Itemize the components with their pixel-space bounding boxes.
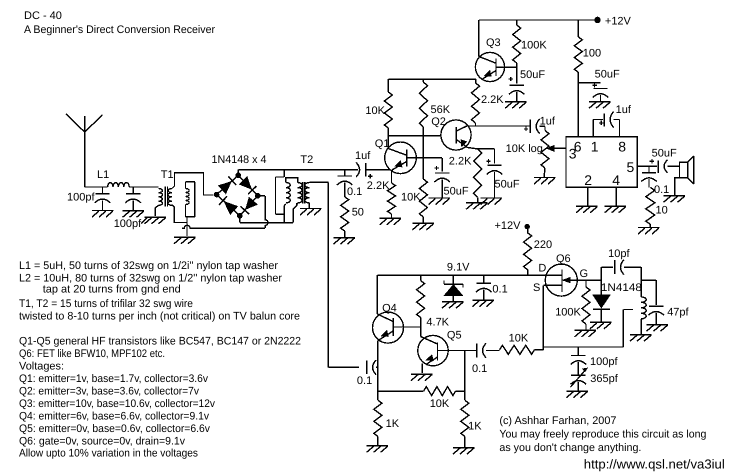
svg-text:10K: 10K [365,105,385,117]
svg-text:50uF: 50uF [495,179,520,191]
svg-text:100: 100 [583,48,601,60]
svg-text:Q2: emitter=3v, base=3.6v, col: Q2: emitter=3v, base=3.6v, collector=7v [19,386,199,398]
svg-text:S: S [533,282,540,294]
svg-text:365pf: 365pf [590,373,618,385]
svg-text:as you don't change anything.: as you don't change anything. [499,442,641,454]
svg-text:50uF: 50uF [652,148,677,160]
svg-text:1N4148 x 4: 1N4148 x 4 [212,154,267,166]
svg-text:5: 5 [627,159,635,175]
svg-text:3: 3 [569,146,577,162]
svg-text:Q3: emitter=10v, base=10.6v, c: Q3: emitter=10v, base=10.6v, collector=1… [19,398,215,410]
svg-text:1: 1 [591,138,599,154]
svg-text:100K: 100K [521,40,547,52]
svg-text:2: 2 [584,172,592,188]
svg-text:0.1: 0.1 [347,186,362,198]
svg-text:Q6: FET like BFW10, MPF102 etc: Q6: FET like BFW10, MPF102 etc. [19,348,165,360]
svg-text:100pf: 100pf [67,192,95,204]
svg-text:DC - 40: DC - 40 [24,10,62,22]
svg-text:T2: T2 [300,154,313,166]
svg-text:1K: 1K [468,421,482,433]
svg-text:2.2K: 2.2K [367,180,390,192]
svg-text:Q3: Q3 [486,37,501,49]
svg-text:50: 50 [352,207,364,219]
svg-text:Q6: gate=0v, source=0v, drain=: Q6: gate=0v, source=0v, drain=9.1v [19,436,185,448]
svg-text:50uF: 50uF [595,69,620,81]
svg-text:L1: L1 [97,169,109,181]
svg-text:1uf: 1uf [355,150,371,162]
svg-text:T1, T2 = 15 turns of trifilar: T1, T2 = 15 turns of trifilar 32 swg wir… [19,298,193,310]
svg-text:4.7K: 4.7K [426,317,449,329]
svg-text:100pf: 100pf [590,356,618,368]
svg-text:10K: 10K [509,333,529,345]
svg-text:+12V: +12V [495,220,522,232]
svg-text:Q5: emitter=0v, base=0.6v, col: Q5: emitter=0v, base=0.6v, collector=6.6… [19,423,210,435]
svg-text:10K: 10K [430,398,450,410]
svg-text:2.2K: 2.2K [481,94,504,106]
svg-text:tap at 20 turns from gnd end: tap at 20 turns from gnd end [43,284,181,296]
svg-text:D: D [538,263,546,275]
svg-text:50uF: 50uF [444,186,469,198]
svg-text:T1: T1 [161,169,174,181]
svg-text:9.1V: 9.1V [447,262,470,274]
svg-text:0.1: 0.1 [357,375,372,387]
svg-text:0.1: 0.1 [472,363,487,375]
svg-text:Allow upto 10% variation in th: Allow upto 10% variation in the voltages [19,448,198,460]
svg-text:Q6: Q6 [556,253,571,265]
svg-text:47pf: 47pf [667,307,689,319]
svg-text:220: 220 [534,239,552,251]
svg-text:8: 8 [618,139,626,155]
svg-text:Voltages:: Voltages: [19,361,64,373]
svg-text:10: 10 [656,205,668,217]
svg-text:4: 4 [612,172,620,188]
svg-text:1N4148: 1N4148 [601,282,642,294]
svg-text:1uf: 1uf [616,104,632,116]
svg-text:L1 = 5uH, 50 turns of 32swg on: L1 = 5uH, 50 turns of 32swg on 1/2i'' ny… [19,260,278,272]
svg-text:G: G [580,268,589,280]
svg-text:0.1: 0.1 [654,184,669,196]
svg-text:+12V: +12V [605,16,632,28]
svg-text:100pf: 100pf [114,218,142,230]
svg-text:100K: 100K [555,307,581,319]
svg-text:1K: 1K [386,418,400,430]
svg-text:0.1: 0.1 [492,284,507,296]
svg-text:Q1-Q5 general HF transistors l: Q1-Q5 general HF transistors like BC547,… [19,336,301,348]
svg-text:10K log: 10K log [506,143,543,155]
svg-text:Q5: Q5 [447,330,462,342]
svg-text:A Beginner's Direct Conversion: A Beginner's Direct Conversion Receiver [24,24,215,36]
svg-text:56K: 56K [431,104,451,116]
svg-text:10K: 10K [401,192,421,204]
svg-text:(c) Ashhar Farhan, 2007: (c) Ashhar Farhan, 2007 [499,415,616,427]
svg-text:50uF: 50uF [520,69,545,81]
svg-text:http://www.qsl.net/va3iul: http://www.qsl.net/va3iul [584,457,725,472]
svg-text:twisted to 8-10 turns per inch: twisted to 8-10 turns per inch (not crit… [19,311,300,323]
svg-text:Q4: emitter=6v, base=6.6v, col: Q4: emitter=6v, base=6.6v, collector=9.1… [19,411,209,423]
svg-text:Q1: emitter=1v, base=1.7v, col: Q1: emitter=1v, base=1.7v, collector=3.6… [19,373,208,385]
svg-text:2.2K: 2.2K [449,156,472,168]
svg-text:10pf: 10pf [608,248,630,260]
svg-text:You may freely reproduce this: You may freely reproduce this circuit as… [499,429,706,441]
